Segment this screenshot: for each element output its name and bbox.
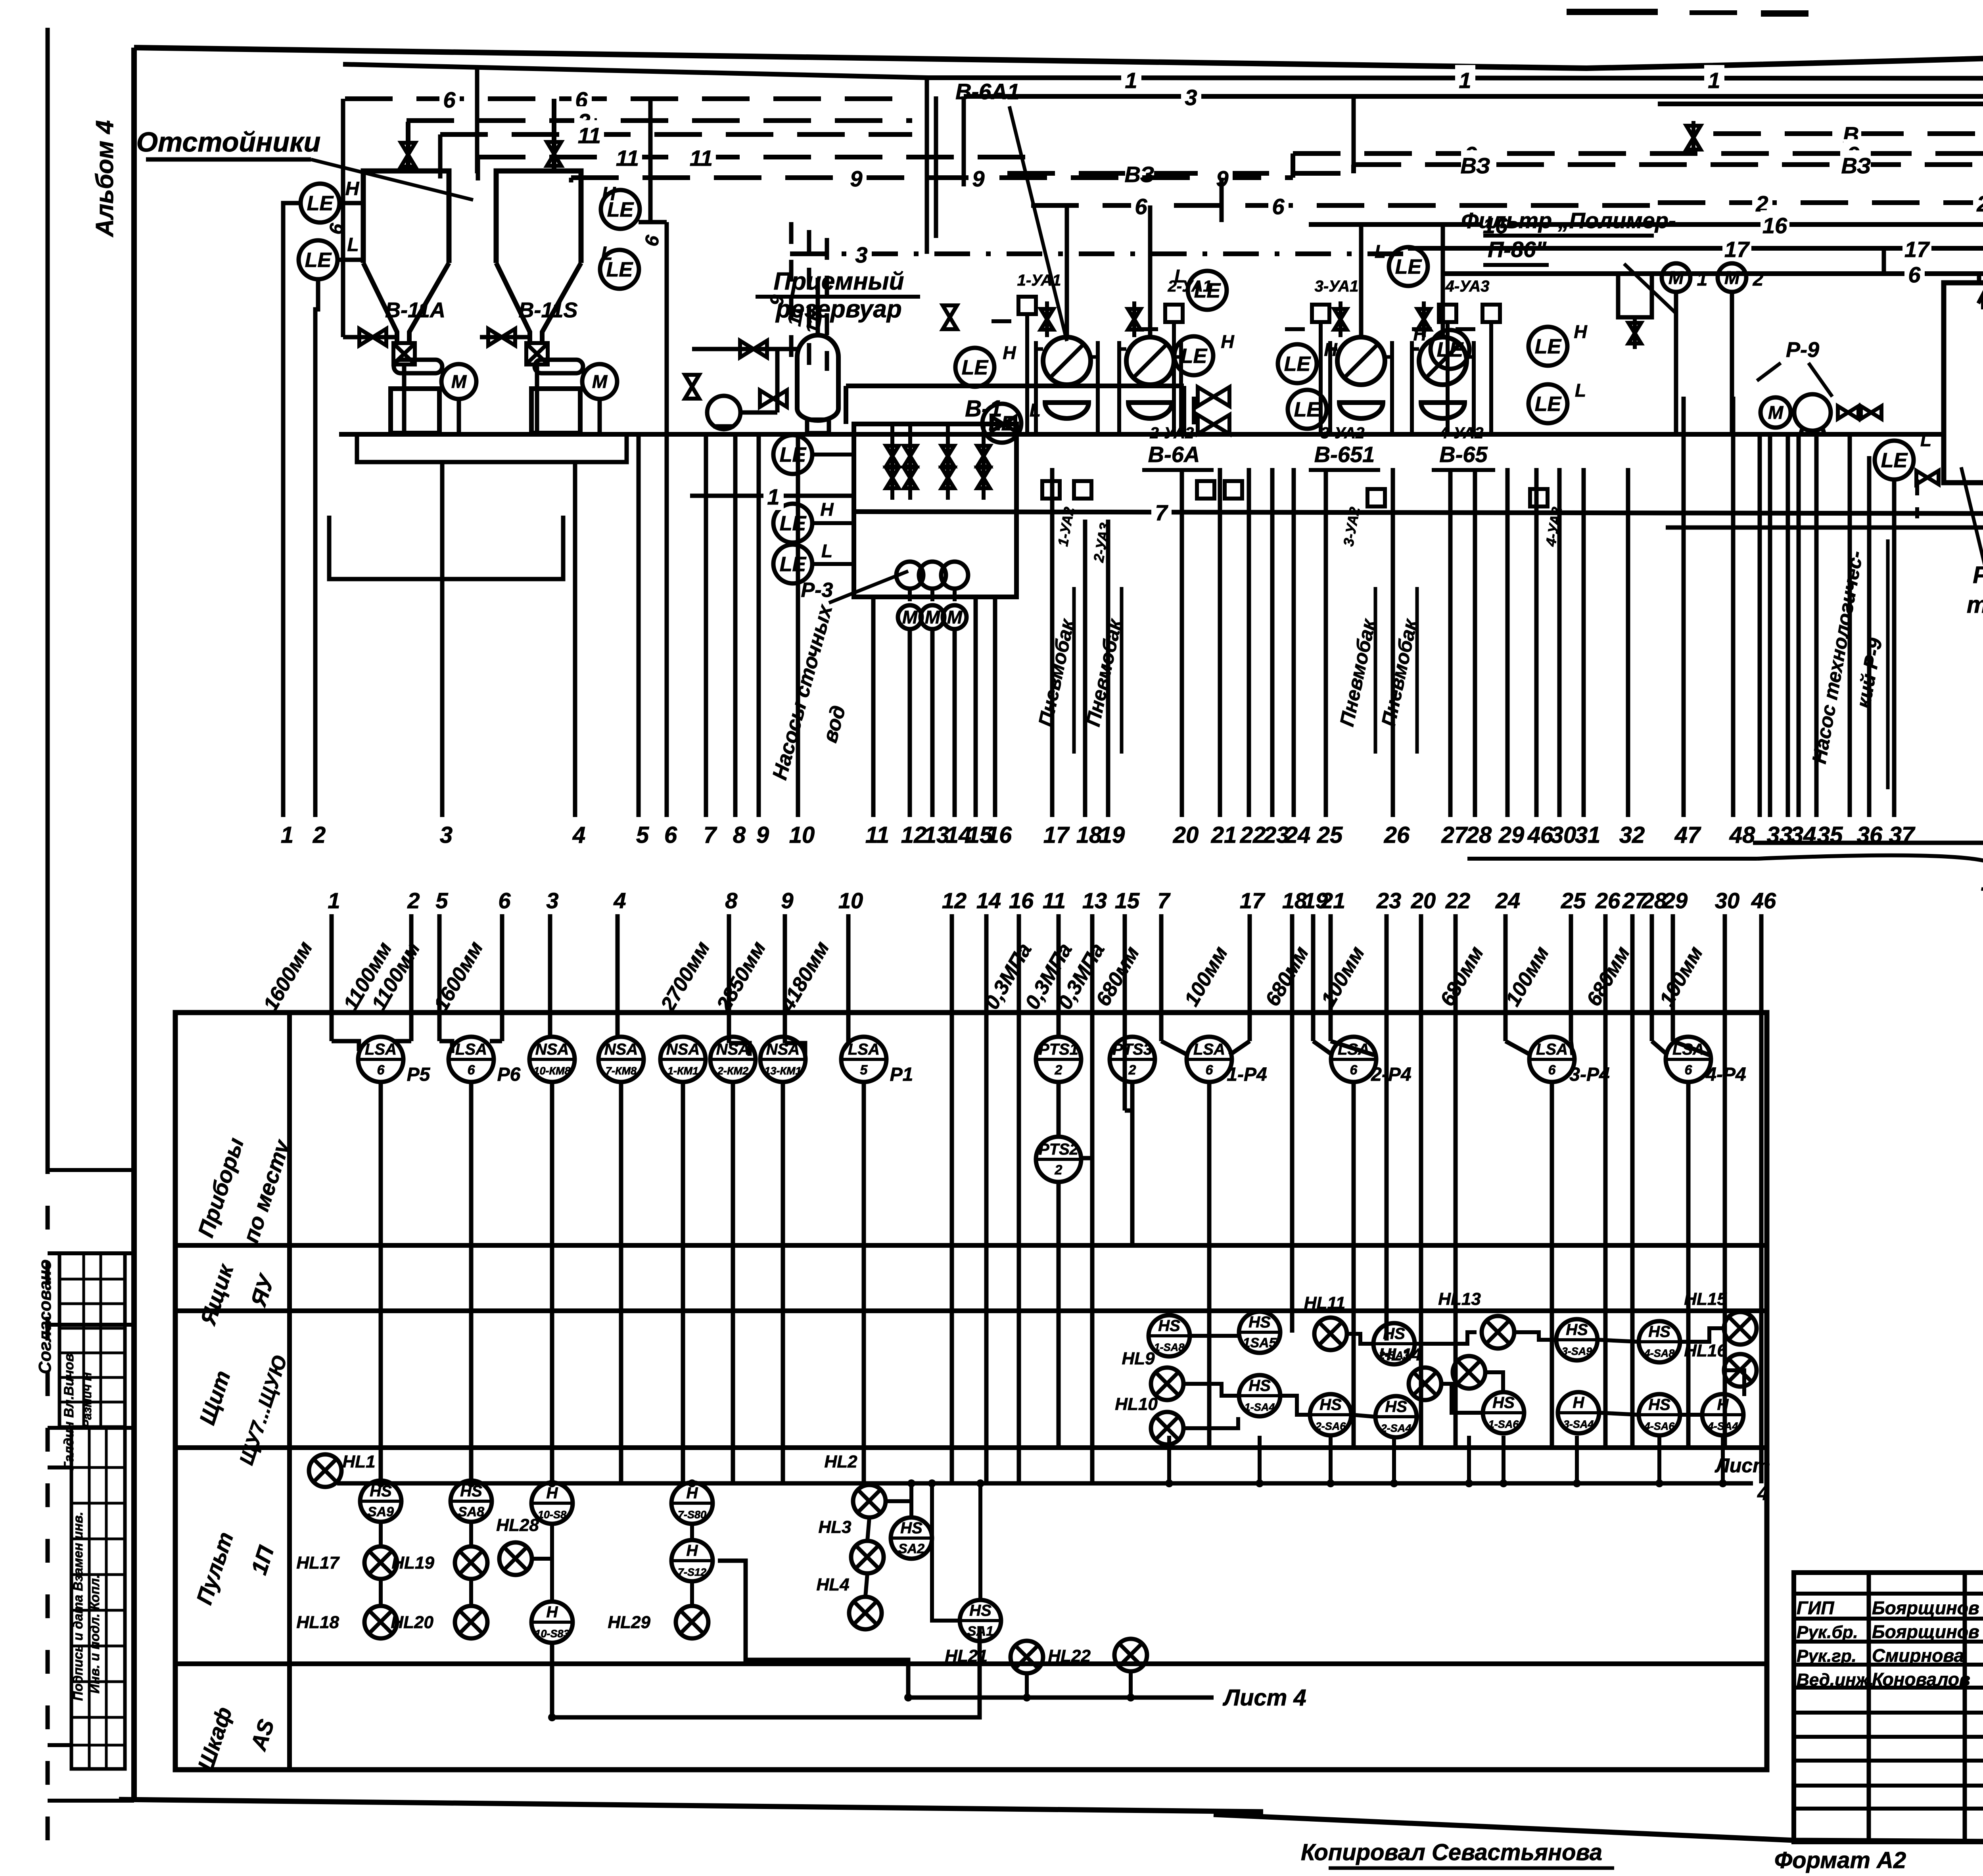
svg-text:4-Р4: 4-Р4 [1705, 1064, 1746, 1085]
svg-text:24: 24 [1285, 822, 1311, 848]
wires 11-16 under B-1 [871, 597, 876, 817]
panel switch HS 2-SA6 [1310, 1394, 1351, 1435]
svg-text:6: 6 [1135, 194, 1147, 219]
svg-text:HS: HS [1566, 1321, 1588, 1339]
pneumobak vessel at x=2900 [1126, 337, 1174, 385]
svg-text:Н: Н [602, 184, 616, 205]
vertical risers right mid [1682, 397, 1686, 817]
svg-text:2: 2 [1128, 1063, 1136, 1078]
svg-text:29: 29 [1498, 822, 1525, 848]
svg-text:PTS1: PTS1 [1039, 1041, 1078, 1058]
svg-text:Отстойники: Отстойники [136, 127, 321, 157]
instrument NSA 13-КМ1 at x=1974 [760, 1037, 805, 1082]
svg-text:31: 31 [1575, 822, 1601, 848]
console switch HS SA8 [451, 1481, 492, 1522]
instrument LSA 6 at x=4257 [1666, 1037, 1711, 1082]
svg-text:6: 6 [377, 1063, 385, 1078]
svg-text:10-КМ8: 10-КМ8 [533, 1065, 570, 1077]
svg-text:ВЗ: ВЗ [1460, 153, 1490, 178]
svg-text:13: 13 [1082, 888, 1107, 913]
svg-text:5: 5 [860, 1063, 868, 1078]
svg-text:В-651: В-651 [1314, 442, 1375, 467]
svg-text:М: М [1668, 267, 1684, 288]
frame border bottom left part [119, 1799, 1263, 1812]
svg-text:6: 6 [1548, 1063, 1556, 1078]
svg-text:Альбом 4: Альбом 4 [91, 120, 119, 238]
svg-text:1: 1 [1697, 269, 1708, 290]
console switch HS SA2 [891, 1517, 932, 1559]
level sensors LE at B-1 [773, 435, 812, 474]
level sensor LE tank B low [600, 250, 639, 289]
svg-text:8: 8 [725, 888, 738, 913]
valve below B-8 [1916, 471, 1939, 484]
svg-text:HL3: HL3 [818, 1517, 851, 1537]
svg-text:2-Р4: 2-Р4 [1371, 1064, 1411, 1085]
wire 29 into table [1671, 914, 1675, 1041]
svg-text:19: 19 [1099, 822, 1125, 848]
misc elbows top left [341, 99, 345, 337]
line 7 long [853, 512, 1983, 514]
drop lines 9 11 11 to receiving reservoir [789, 222, 794, 371]
svg-text:ВЗ: ВЗ [1124, 162, 1154, 187]
B-1 internal valves [890, 424, 894, 500]
svg-text:LE: LE [1535, 393, 1562, 416]
pneumobak vessel at x=3638 [1419, 337, 1467, 385]
svg-text:Копировал Севастьянова: Копировал Севастьянова [1301, 1840, 1602, 1865]
valves at receiving reservoir [740, 341, 767, 357]
svg-text:Н: Н [1574, 321, 1587, 342]
svg-text:2: 2 [407, 888, 420, 913]
svg-text:2: 2 [313, 822, 326, 848]
riser 3413 from VZ [1352, 96, 1356, 165]
list4 line in shkaf row [908, 1696, 1214, 1700]
svg-text:6: 6 [664, 822, 677, 848]
wire 6 into table [500, 914, 504, 1041]
svg-text:NSA: NSA [535, 1041, 569, 1058]
B-8 feed riser [1977, 274, 1981, 283]
svg-text:18: 18 [1076, 822, 1102, 848]
svg-text:ГИП: ГИП [1797, 1598, 1834, 1618]
svg-text:HL17: HL17 [296, 1553, 340, 1573]
svg-text:М: М [947, 607, 963, 627]
wire from LE A high down [283, 203, 301, 817]
svg-text:30: 30 [1551, 822, 1576, 848]
svg-text:Н: Н [687, 1542, 698, 1559]
svg-text:Н: Н [1573, 1394, 1585, 1412]
wire 26 into table [1603, 914, 1608, 1448]
shkaf elbow from 7-S12 [718, 1561, 908, 1698]
svg-text:М: М [902, 607, 918, 627]
svg-text:HL15: HL15 [1684, 1289, 1727, 1309]
wire 15 into PTS3 [1125, 1111, 1132, 1154]
wire 27 into table [1630, 914, 1635, 1448]
svg-text:7: 7 [1157, 888, 1171, 913]
panel switch HS 1-SA6 [1483, 1392, 1524, 1433]
pipe line 3 dash-dot middle [790, 251, 1408, 256]
svg-text:1: 1 [1708, 68, 1720, 93]
svg-text:3: 3 [855, 242, 867, 267]
svg-text:Р-9: Р-9 [1786, 338, 1819, 362]
svg-text:4: 4 [613, 888, 626, 913]
svg-text:20: 20 [1411, 888, 1436, 913]
pump R-9 motor [1761, 397, 1791, 428]
left stamp table lower (Podpis i data / Inv.no) [71, 1428, 125, 1769]
panel switch HS 1-SA4 [1239, 1375, 1280, 1416]
wire 28 into table [1650, 914, 1654, 1041]
svg-text:Н: Н [1717, 1396, 1729, 1414]
svg-text:16: 16 [1009, 888, 1034, 913]
svg-text:1: 1 [328, 888, 340, 913]
svg-text:LSA: LSA [1338, 1041, 1369, 1058]
svg-text:HL14: HL14 [1379, 1345, 1421, 1364]
lamp HL29 [676, 1606, 708, 1638]
svg-text:HL29: HL29 [608, 1613, 650, 1632]
svg-text:Н: Н [345, 178, 360, 199]
pipe line 1 top [343, 64, 1983, 79]
svg-text:L: L [1920, 430, 1931, 450]
svg-text:HS: HS [1158, 1317, 1180, 1335]
svg-text:LE: LE [780, 443, 807, 466]
svg-text:HS: HS [1648, 1396, 1670, 1414]
svg-text:4: 4 [1757, 1482, 1768, 1504]
svg-text:LE: LE [1881, 449, 1908, 472]
HS SA2 connection [909, 1483, 913, 1517]
solenoid valve squares top row [1018, 297, 1036, 314]
sheet left trim line [46, 28, 50, 1150]
svg-text:10-S83: 10-S83 [535, 1628, 569, 1640]
svg-text:Рук.бр.: Рук.бр. [1797, 1623, 1858, 1642]
wires below row1 instruments [379, 1081, 383, 1483]
wire 9 into table [783, 914, 787, 1043]
svg-text:NSA: NSA [604, 1041, 638, 1058]
wire 21 into table [1329, 914, 1333, 1041]
svg-text:LE: LE [1395, 255, 1422, 278]
wire 16 into table [1017, 914, 1021, 1483]
svg-text:5: 5 [435, 888, 448, 913]
svg-text:7: 7 [704, 822, 717, 848]
pipe line 17 [1408, 246, 1983, 251]
wire 46 into table [1759, 914, 1764, 1483]
valve left of LE [943, 305, 957, 329]
pneumobak column valves [1041, 309, 1053, 330]
console switch Н 7-S80 [671, 1483, 713, 1524]
svg-text:2: 2 [1753, 269, 1764, 290]
instrument LSA 6 at x=3413 [1331, 1037, 1376, 1082]
svg-text:Н: Н [687, 1485, 698, 1502]
tank B-11S drain valve [526, 343, 548, 364]
svg-text:1-УА1: 1-УА1 [1017, 272, 1061, 289]
wires HL21 HL22 drop [1025, 1673, 1029, 1698]
lamp HL16 [1724, 1354, 1757, 1387]
svg-text:9: 9 [850, 166, 862, 191]
lamp HL21 [1011, 1641, 1043, 1673]
riser 3260 [1220, 178, 1224, 222]
svg-text:3-УА1: 3-УА1 [1315, 278, 1359, 295]
svg-text:1: 1 [1459, 68, 1471, 93]
wires under tanks [402, 364, 407, 434]
svg-text:М: М [451, 371, 467, 392]
svg-text:12: 12 [901, 822, 927, 848]
svg-text:4: 4 [572, 822, 585, 848]
svg-text:2: 2 [1055, 1063, 1062, 1078]
svg-text:Н: Н [820, 499, 834, 520]
wire 19 into table [1311, 914, 1316, 1041]
wire 1 into table [330, 914, 334, 1041]
svg-text:В-6А: В-6А [1148, 442, 1200, 467]
svg-text:SA9: SA9 [368, 1504, 394, 1519]
svg-text:4-УА3: 4-УА3 [1445, 278, 1490, 295]
svg-text:4-SA4: 4-SA4 [1707, 1420, 1738, 1432]
svg-text:25: 25 [1317, 822, 1343, 848]
instrument LSA 5 at x=2178 [841, 1037, 886, 1082]
LE sensors pneumobak area [955, 348, 994, 387]
lamp HL28 [499, 1542, 532, 1575]
table outer box [175, 1013, 1767, 1770]
motor M agitator A [441, 364, 476, 399]
svg-text:SA8: SA8 [458, 1504, 484, 1519]
svg-text:22: 22 [1240, 822, 1266, 848]
lamp HL20 [455, 1606, 487, 1638]
underbrace list 4 bottom [1467, 857, 1757, 861]
svg-text:Н: Н [547, 1604, 558, 1621]
svg-text:Н: Н [1413, 324, 1427, 344]
line 1 at B-1 [690, 494, 854, 498]
lamp HL18 [364, 1606, 397, 1638]
table row lines [175, 1243, 1767, 1248]
svg-text:26: 26 [1384, 822, 1410, 848]
lamp HL22 [1114, 1639, 1147, 1671]
tank B-11S top pipe valve [552, 99, 556, 171]
wire 13 into table [1090, 914, 1095, 1483]
svg-text:LSA: LSA [365, 1041, 397, 1058]
svg-text:LE: LE [962, 356, 989, 379]
svg-text:Рук.гр.: Рук.гр. [1797, 1646, 1856, 1666]
svg-text:HL10: HL10 [1115, 1395, 1158, 1414]
svg-text:1-КМ1: 1-КМ1 [667, 1065, 698, 1077]
svg-text:HS: HS [1248, 1314, 1271, 1331]
svg-text:LE: LE [1284, 353, 1311, 376]
svg-text:LE: LE [305, 249, 332, 272]
svg-text:17: 17 [1724, 237, 1750, 262]
console switch Н 7-S12 [671, 1540, 713, 1581]
B-1 pumps [896, 562, 923, 589]
svg-text:ВЗ: ВЗ [1841, 153, 1871, 178]
lamp HL15 [1724, 1312, 1757, 1345]
svg-text:Размич Н: Размич Н [81, 1372, 94, 1428]
svg-text:3: 3 [440, 822, 453, 848]
receiving reservoir vessel [797, 335, 838, 420]
svg-text:25: 25 [1561, 888, 1586, 913]
pipe line B right [1713, 131, 1983, 136]
instrument NSA 7-КМ8 at x=1566 [598, 1037, 644, 1082]
svg-text:Боярщинов: Боярщинов [1872, 1621, 1979, 1642]
svg-text:HL2: HL2 [824, 1452, 857, 1471]
svg-text:HL16: HL16 [1684, 1341, 1727, 1360]
wire 14 into table [984, 914, 989, 1483]
svg-text:NSA: NSA [766, 1041, 800, 1058]
pipe line 16 [1309, 222, 1983, 227]
svg-text:PTS2: PTS2 [1039, 1141, 1078, 1158]
frame border left [131, 48, 137, 1801]
svg-text:1-SA6: 1-SA6 [1488, 1418, 1519, 1430]
wire 4 into table [616, 914, 620, 1036]
signature table grid [1794, 1573, 1983, 1842]
svg-text:6: 6 [1908, 262, 1921, 287]
svg-text:SA2: SA2 [898, 1541, 924, 1556]
svg-text:29: 29 [1663, 888, 1688, 913]
svg-text:М: М [925, 607, 941, 627]
svg-text:22: 22 [1445, 888, 1470, 913]
svg-text:L: L [821, 541, 832, 561]
instrument LSA 6 at x=3049 [1187, 1037, 1232, 1082]
svg-text:М: М [1724, 267, 1740, 288]
tank B-11S [496, 171, 581, 263]
instrument LSA 6 at x=960 [358, 1037, 403, 1082]
svg-text:28: 28 [1466, 822, 1492, 848]
svg-text:LSA: LSA [848, 1041, 880, 1058]
svg-text:В-11А: В-11А [385, 298, 445, 322]
filter vessel [1618, 274, 1652, 317]
wire 18 into table [1290, 914, 1295, 1333]
svg-text:LSA: LSA [1193, 1041, 1225, 1058]
table row label column divider [287, 1013, 292, 1770]
svg-text:6: 6 [1685, 1063, 1693, 1078]
svg-text:21: 21 [1320, 888, 1345, 913]
risers pneumobak wires [1050, 468, 1055, 817]
panel switch HS 2-SA3 [1373, 1323, 1415, 1364]
svg-text:9: 9 [781, 888, 793, 913]
svg-text:L: L [1174, 266, 1185, 286]
svg-text:17: 17 [1240, 888, 1266, 913]
HS SA1 riser [978, 1483, 982, 1600]
under tank bus 2 [329, 516, 563, 579]
svg-text:27: 27 [1441, 822, 1468, 848]
svg-text:Н: Н [1003, 342, 1016, 363]
svg-text:LE: LE [1181, 345, 1208, 368]
svg-text:L: L [1375, 241, 1386, 262]
instrument LSA 6 at x=1188 [449, 1037, 494, 1082]
svg-text:Боярщинов: Боярщинов [1872, 1598, 1979, 1618]
svg-text:1: 1 [767, 484, 779, 509]
svg-text:46: 46 [1751, 888, 1776, 913]
instrument PTS1 2 at x=2669 [1036, 1037, 1081, 1082]
svg-text:3-УА2: 3-УА2 [1321, 424, 1365, 442]
svg-text:Фильтр „Полимер-: Фильтр „Полимер- [1461, 208, 1676, 233]
risers pneumobak to top lines [1065, 205, 1069, 278]
svg-text:HL28: HL28 [496, 1515, 539, 1535]
panel switch HS 4-SA6 [1639, 1394, 1680, 1435]
svg-text:LE: LE [307, 192, 334, 215]
lamp HL3 [851, 1541, 884, 1573]
solenoid valve squares bottom row [1042, 481, 1060, 499]
svg-text:3: 3 [1185, 85, 1197, 110]
svg-text:23: 23 [1376, 888, 1401, 913]
pipe line 6 lower right [1444, 271, 1983, 276]
lamp HL2 [853, 1485, 886, 1517]
svg-text:Н: Н [547, 1485, 558, 1502]
wire 12 into table [950, 914, 954, 1483]
lamp HL10 [1151, 1412, 1183, 1444]
svg-text:Инв. и подл. Копл.: Инв. и подл. Копл. [87, 1575, 102, 1694]
valve on line 2 [1686, 126, 1701, 150]
lamp HL4 [849, 1597, 882, 1629]
left stamp tick rows upper [48, 1168, 134, 1172]
svg-text:Лист: Лист [1715, 1454, 1770, 1477]
panel switch HS 1SA5 [1239, 1312, 1280, 1353]
left stamp tick rows lower [48, 1466, 71, 1469]
pneumobak vessel at x=2690 [1043, 337, 1091, 385]
svg-text:10: 10 [789, 822, 815, 848]
svg-text:Лист 4: Лист 4 [1222, 1685, 1306, 1711]
svg-text:16: 16 [986, 822, 1012, 848]
lamp HL13 [1482, 1316, 1514, 1348]
svg-text:1-SA8: 1-SA8 [1154, 1341, 1185, 1353]
wire 30 into table [1723, 914, 1727, 1448]
B-1 pump motors [898, 605, 922, 629]
svg-text:15: 15 [1115, 888, 1140, 913]
svg-text:Коновалов: Коновалов [1872, 1669, 1970, 1690]
svg-text:HL11: HL11 [1304, 1293, 1345, 1313]
wire 10 into table [846, 914, 851, 1043]
svg-text:2-SA6: 2-SA6 [1315, 1420, 1346, 1432]
svg-text:6: 6 [443, 87, 456, 112]
instrument NSA 1-КМ1 at x=1722 [660, 1037, 706, 1082]
7 elbow right [1666, 492, 1983, 528]
svg-text:11: 11 [1043, 888, 1066, 913]
svg-text:3-SA4: 3-SA4 [1563, 1418, 1594, 1430]
elbow wires into LSA6 1-P4 [1161, 1041, 1188, 1055]
wires below P4 instruments [1207, 1081, 1212, 1448]
svg-text:8: 8 [733, 822, 746, 848]
svg-text:В-11S: В-11S [518, 298, 577, 322]
panel switch HS 4-SA8 [1639, 1321, 1680, 1362]
panel switch HS 3-SA9 [1556, 1319, 1598, 1360]
big valves between B-6A pair [1198, 387, 1229, 406]
pump R-9 [1794, 394, 1831, 431]
filter valve column [1628, 323, 1641, 343]
svg-text:L: L [347, 234, 359, 255]
lamp HL19 [455, 1546, 487, 1579]
svg-text:48: 48 [1729, 822, 1755, 848]
instrument PTS3 2 at x=2855 [1110, 1037, 1155, 1082]
B-8 internal 17 arrow [1978, 294, 1983, 309]
svg-text:HS: HS [1648, 1323, 1670, 1341]
svg-text:L: L [1575, 380, 1586, 401]
svg-text:HL1: HL1 [342, 1452, 375, 1471]
svg-text:М: М [592, 371, 608, 392]
shchit interconnect wires [1191, 1334, 1238, 1338]
svg-text:Р5: Р5 [407, 1064, 431, 1085]
lamp HL17 [364, 1546, 397, 1579]
wire 25 into table [1569, 914, 1573, 1041]
svg-text:HL19: HL19 [391, 1553, 434, 1573]
left stamp table Soglasovano [59, 1253, 125, 1428]
pult bus line HL1 [337, 1481, 1753, 1486]
LE near R-9 [1875, 441, 1914, 480]
svg-text:6: 6 [468, 1063, 476, 1078]
svg-text:11: 11 [690, 146, 713, 171]
shchit drops to pult bus [1167, 1436, 1171, 1483]
pipe line 6 tanks top [345, 96, 900, 101]
svg-text:9: 9 [756, 822, 769, 848]
svg-text:11: 11 [865, 822, 889, 848]
instrument NSA 2-КМ2 at x=1848 [710, 1037, 756, 1082]
svg-text:Р6: Р6 [497, 1064, 521, 1085]
tank B-11A top pipe valve [406, 122, 410, 171]
svg-text:21: 21 [1211, 822, 1237, 848]
svg-text:11: 11 [578, 123, 601, 148]
svg-text:13: 13 [924, 822, 949, 848]
